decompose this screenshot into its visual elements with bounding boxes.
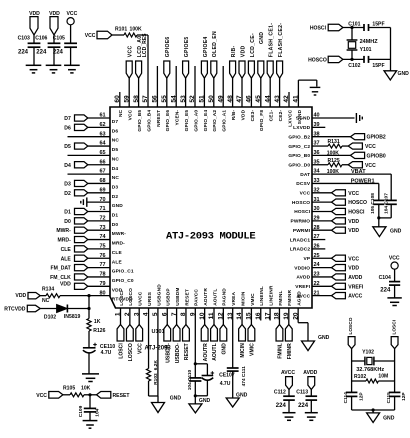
svg-text:PAGND: PAGND: [222, 288, 228, 306]
svg-text:LRADC2: LRADC2: [290, 247, 311, 253]
svg-text:SGND: SGND: [296, 116, 311, 122]
svg-text:D3: D3: [112, 184, 119, 190]
svg-text:GPIOE6: GPIOE6: [165, 36, 171, 57]
svg-text:OLED_EN: OLED_EN: [212, 31, 218, 57]
svg-text:R102: R102: [354, 374, 366, 380]
svg-text:ALE: ALE: [61, 256, 72, 262]
svg-text:R125: R125: [328, 158, 340, 164]
svg-text:USBDO-: USBDO-: [175, 343, 181, 363]
svg-text:MWR-: MWR-: [56, 228, 71, 234]
svg-text:15PF: 15PF: [372, 22, 384, 28]
svg-text:VCC: VCC: [128, 46, 134, 58]
svg-text:R126: R126: [93, 328, 105, 334]
svg-text:GND: GND: [259, 32, 265, 44]
svg-text:LRADC1: LRADC1: [290, 237, 311, 243]
svg-text:VCC: VCC: [389, 255, 400, 261]
svg-text:AOUTL: AOUTL: [212, 343, 218, 361]
svg-text:LOSCI: LOSCI: [119, 343, 125, 359]
svg-text:D3: D3: [64, 181, 71, 187]
svg-text:C101: C101: [348, 22, 360, 28]
svg-text:CLE: CLE: [61, 247, 72, 253]
svg-text:C115: C115: [386, 392, 392, 404]
svg-text:C103: C103: [18, 36, 30, 42]
svg-text:LOSCO: LOSCO: [128, 343, 134, 361]
svg-text:VP: VP: [303, 256, 310, 262]
svg-text:NC: NC: [112, 175, 120, 181]
svg-text:GPIOE4: GPIOE4: [203, 36, 209, 57]
svg-text:LOSCI: LOSCI: [119, 290, 125, 306]
svg-text:GPIO_E5: GPIO_E5: [184, 110, 190, 132]
svg-text:C106: C106: [35, 36, 47, 42]
svg-text:Y102: Y102: [362, 350, 374, 356]
svg-text:DAT: DAT: [300, 172, 310, 178]
svg-text:LINEINR: LINEINR: [269, 285, 275, 306]
svg-text:LOSCI: LOSCI: [391, 319, 397, 334]
svg-text:AVCC: AVCC: [281, 370, 295, 376]
svg-text:GND: GND: [199, 398, 211, 404]
svg-text:AVDD: AVDD: [296, 275, 310, 281]
svg-text:VCC: VCC: [348, 191, 359, 197]
svg-text:VREFI: VREFI: [295, 284, 310, 290]
svg-text:NC: NC: [112, 156, 120, 162]
svg-text:NC: NC: [42, 298, 50, 304]
svg-text:FMINR: FMINR: [287, 343, 293, 359]
svg-text:R/B-: R/B-: [231, 46, 237, 58]
svg-text:FMINL: FMINL: [278, 343, 284, 359]
svg-text:POWER1: POWER1: [351, 178, 375, 184]
svg-text:R/B-: R/B-: [231, 110, 237, 121]
svg-text:HOSCI: HOSCI: [310, 26, 327, 32]
svg-text:1K: 1K: [94, 319, 101, 325]
svg-text:FM_DAT: FM_DAT: [51, 266, 72, 272]
svg-text:GPIO_A1: GPIO_A1: [222, 110, 228, 132]
svg-text:D102: D102: [44, 314, 56, 320]
svg-text:D6: D6: [64, 125, 71, 131]
svg-text:VCC: VCC: [365, 144, 376, 150]
svg-text:VBAT: VBAT: [351, 169, 366, 175]
svg-text:NREST: NREST: [156, 110, 162, 127]
svg-text:MICIN: MICIN: [240, 343, 246, 358]
svg-text:HOSCI: HOSCI: [348, 210, 365, 216]
svg-text:D2: D2: [64, 191, 71, 197]
svg-text:CE2-: CE2-: [278, 110, 284, 122]
svg-text:C114: C114: [343, 392, 349, 404]
svg-text:VCC: VCC: [67, 11, 78, 17]
svg-text:RESET: RESET: [113, 393, 131, 399]
svg-text:VCC: VCC: [85, 33, 96, 39]
svg-text:R134: R134: [42, 286, 54, 292]
svg-text:VDDIO: VDDIO: [294, 265, 310, 271]
svg-text:AGND: AGND: [297, 291, 303, 306]
svg-text:VREFI: VREFI: [348, 284, 364, 290]
svg-text:USBDM: USBDM: [175, 287, 181, 305]
svg-text:C112: C112: [274, 390, 286, 396]
svg-text:D5: D5: [112, 147, 119, 153]
svg-text:12P: 12P: [358, 392, 364, 401]
svg-text:GPIOB2: GPIOB2: [367, 135, 386, 141]
svg-text:GPIO_D0: GPIO_D0: [288, 162, 310, 168]
svg-text:32.768KHz: 32.768KHz: [356, 367, 384, 373]
svg-text:LXVCC: LXVCC: [287, 109, 293, 126]
svg-text:HOSCO: HOSCO: [308, 58, 327, 64]
svg-text:AVDD: AVDD: [348, 275, 362, 281]
svg-text:D0: D0: [64, 219, 71, 225]
svg-text:GPIO_E4: GPIO_E4: [203, 110, 209, 132]
svg-text:PWRMI: PWRMI: [293, 228, 311, 234]
svg-text:LCD_A0: LCD_A0: [137, 36, 143, 58]
svg-text:VMIC: VMIC: [250, 343, 256, 356]
svg-text:GPIO_C2: GPIO_C2: [288, 144, 310, 150]
svg-text:NC: NC: [112, 138, 120, 144]
svg-text:MWR-: MWR-: [112, 231, 126, 237]
svg-text:VCC: VCC: [137, 343, 143, 354]
svg-text:GPIO_A0: GPIO_A0: [193, 110, 199, 132]
svg-text:VMIC: VMIC: [250, 293, 256, 306]
svg-text:D4: D4: [112, 166, 119, 172]
svg-text:ATJ-2093: ATJ-2093: [145, 346, 172, 352]
svg-text:USBGND: USBGND: [156, 284, 162, 306]
svg-text:12P: 12P: [401, 392, 407, 401]
svg-text:ALE: ALE: [112, 259, 123, 265]
svg-text:VCC: VCC: [348, 256, 359, 262]
svg-text:URES: URES: [147, 291, 153, 306]
svg-text:10M: 10M: [378, 373, 388, 379]
svg-text:MRD-: MRD-: [58, 238, 72, 244]
svg-text:PAVCC: PAVCC: [194, 289, 200, 306]
svg-text:D7: D7: [64, 116, 71, 122]
svg-text:VDD: VDD: [15, 293, 26, 299]
svg-text:FMINL: FMINL: [278, 290, 284, 305]
svg-text:GPIOE5: GPIOE5: [184, 36, 190, 57]
svg-text:RTCVDD: RTCVDD: [4, 307, 26, 313]
svg-text:FLASH_CE1-: FLASH_CE1-: [269, 23, 275, 57]
svg-text:VDD: VDD: [29, 11, 40, 17]
svg-text:224: 224: [53, 50, 64, 56]
svg-text:GND: GND: [112, 203, 123, 209]
svg-text:D6: D6: [112, 128, 119, 134]
svg-text:GPIO_C0: GPIO_C0: [112, 278, 134, 284]
svg-text:VDD: VDD: [240, 46, 246, 58]
svg-text:AVDD: AVDD: [303, 370, 317, 376]
svg-text:104 C107: 104 C107: [384, 193, 390, 214]
svg-text:Y101: Y101: [360, 47, 372, 53]
svg-text:VCC: VCC: [365, 163, 376, 169]
svg-text:GND: GND: [236, 393, 248, 399]
svg-text:FMINR: FMINR: [287, 289, 293, 305]
svg-text:474 C111: 474 C111: [241, 366, 247, 387]
svg-text:LOSCO: LOSCO: [348, 317, 354, 334]
svg-text:VCC: VCC: [300, 191, 311, 197]
svg-text:AOUTL: AOUTL: [212, 289, 218, 306]
svg-text:VCC: VCC: [128, 109, 134, 120]
svg-text:224: 224: [18, 50, 29, 56]
svg-text:GND: GND: [390, 229, 402, 235]
svg-text:GPIO_F8: GPIO_F8: [259, 110, 265, 131]
svg-text:HOSCI: HOSCI: [294, 209, 310, 215]
svg-text:GND: GND: [318, 335, 330, 341]
svg-text:C109: C109: [78, 405, 84, 417]
svg-text:D1: D1: [112, 213, 119, 219]
svg-text:D5: D5: [64, 144, 71, 150]
svg-text:LINEINL: LINEINL: [259, 286, 265, 306]
svg-text:GPIO_B5: GPIO_B5: [137, 110, 143, 132]
svg-text:D2: D2: [112, 194, 119, 200]
svg-text:R101: R101: [115, 26, 127, 32]
svg-text:VDD: VDD: [348, 219, 359, 225]
svg-text:UVCC: UVCC: [138, 291, 144, 306]
svg-text:NC: NC: [118, 109, 124, 117]
svg-text:VDD: VDD: [348, 228, 359, 234]
svg-text:10K: 10K: [81, 386, 91, 392]
svg-text:AOUTR: AOUTR: [203, 343, 209, 361]
svg-text:224: 224: [276, 403, 287, 409]
svg-text:100K: 100K: [327, 150, 339, 156]
svg-text:D4: D4: [64, 163, 71, 169]
svg-text:4.7U: 4.7U: [220, 381, 231, 387]
svg-text:R105: R105: [63, 386, 75, 392]
svg-text:VREA: VREA: [231, 291, 237, 305]
svg-text:GPIO_E6: GPIO_E6: [165, 110, 171, 132]
svg-text:D7: D7: [112, 119, 119, 125]
svg-text:VCC: VCC: [36, 393, 47, 399]
svg-text:U101: U101: [152, 329, 165, 335]
svg-text:24MHZ: 24MHZ: [360, 39, 379, 45]
svg-text:GPIO_A2: GPIO_A2: [212, 110, 218, 132]
svg-text:GPIO_C1: GPIO_C1: [112, 269, 134, 275]
svg-text:USBDP: USBDP: [166, 288, 172, 306]
svg-text:HOSCO: HOSCO: [292, 200, 310, 206]
svg-text:AOUTR: AOUTR: [203, 288, 209, 306]
svg-text:104: 104: [94, 408, 100, 416]
svg-text:CLE: CLE: [112, 250, 123, 256]
svg-text:LOSCO: LOSCO: [128, 288, 134, 306]
svg-text:C102: C102: [348, 63, 360, 69]
svg-text:AVCC: AVCC: [348, 294, 362, 300]
svg-text:GPIO_B2: GPIO_B2: [288, 134, 310, 140]
svg-text:FLASH_CE2-: FLASH_CE2-: [278, 23, 284, 57]
svg-text:GPIO_B0: GPIO_B0: [288, 153, 310, 159]
svg-text:LXVDD: LXVDD: [293, 125, 310, 131]
svg-text:C105: C105: [53, 36, 65, 42]
svg-text:GPIOB0: GPIOB0: [367, 153, 386, 159]
svg-text:HOSCO: HOSCO: [348, 200, 367, 206]
svg-text:RESET: RESET: [184, 342, 190, 360]
svg-text:224: 224: [380, 288, 391, 294]
svg-text:GND: GND: [222, 343, 228, 355]
svg-text:LCD_CE-: LCD_CE-: [250, 33, 256, 57]
svg-text:GPIO_B4: GPIO_B4: [146, 110, 152, 132]
svg-text:R131: R131: [328, 139, 340, 145]
svg-text:GND: GND: [383, 416, 395, 422]
svg-text:CE1-: CE1-: [269, 110, 275, 122]
svg-text:MRD-: MRD-: [112, 241, 125, 247]
svg-text:100K: 100K: [130, 26, 142, 32]
svg-text:IN5819: IN5819: [64, 314, 81, 320]
svg-text:100K: 100K: [327, 169, 339, 175]
svg-text:YCEN-: YCEN-: [175, 110, 181, 126]
svg-text:VDD: VDD: [240, 109, 246, 120]
svg-text:4.7U: 4.7U: [101, 350, 112, 356]
svg-text:FM_CLK: FM_CLK: [50, 275, 71, 281]
svg-text:ATJ-2093 MODULE: ATJ-2093 MODULE: [166, 231, 255, 243]
svg-text:CE3-: CE3-: [250, 110, 256, 122]
svg-text:224: 224: [298, 403, 309, 409]
svg-text:GND: GND: [398, 71, 410, 77]
svg-text:GND: GND: [170, 396, 182, 402]
svg-text:D0: D0: [112, 222, 119, 228]
svg-text:PWRMO: PWRMO: [291, 219, 311, 225]
svg-text:104 C110: 104 C110: [187, 369, 193, 390]
svg-text:MICIN: MICIN: [240, 291, 246, 306]
svg-text:VDD: VDD: [60, 282, 71, 288]
svg-text:C104: C104: [379, 275, 391, 281]
svg-text:C113: C113: [296, 390, 308, 396]
svg-text:224: 224: [36, 50, 47, 56]
svg-text:D1: D1: [64, 210, 71, 216]
svg-text:105 C108: 105 C108: [370, 193, 376, 214]
svg-text:VDD: VDD: [348, 266, 359, 272]
svg-text:VDD: VDD: [49, 11, 60, 17]
svg-text:DCSV: DCSV: [296, 181, 311, 187]
svg-text:15PF: 15PF: [372, 63, 384, 69]
svg-text:RESET: RESET: [184, 289, 190, 306]
